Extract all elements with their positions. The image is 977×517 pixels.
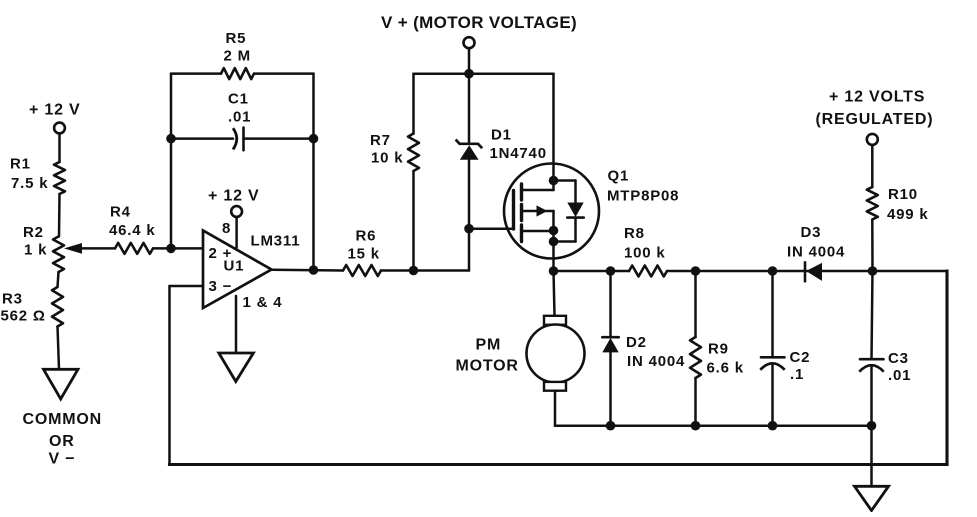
wire feedback top right [254, 72, 314, 75]
svg-text:PM: PM [476, 337, 502, 354]
resistor R9 [690, 337, 701, 378]
junction output/feedback [309, 265, 319, 275]
junction bottom rail / ground stem [867, 421, 877, 431]
Q1 drain stub [522, 189, 554, 192]
wire ground stem [870, 426, 873, 487]
svg-text:C1: C1 [228, 91, 249, 108]
wire gate node down to R6 line [468, 229, 471, 271]
svg-text:15 k: 15 k [348, 246, 380, 263]
svg-text:.01: .01 [228, 109, 251, 126]
junction C2 bottom [768, 421, 778, 431]
transistor Q1 MTP8P08 body circle [504, 164, 599, 259]
svg-text:C3: C3 [888, 350, 909, 367]
junction R9 bottom [691, 421, 701, 431]
wire drain node to motor [554, 271, 555, 316]
wire feedback right vertical [312, 74, 315, 270]
resistor R6 [343, 265, 381, 276]
svg-text:10 k: 10 k [371, 150, 403, 167]
capacitor C2 [761, 356, 785, 359]
junction C1 right [309, 134, 319, 144]
svg-text:1N4740: 1N4740 [490, 145, 547, 162]
junction R6/R7 [409, 266, 419, 276]
junction C2 top [768, 266, 778, 276]
junction R9 top [691, 266, 701, 276]
Q1 gate bar [512, 191, 515, 230]
wire pin 8 [235, 217, 238, 248]
wiper arrow of R2 [64, 243, 82, 254]
wire pin 3 feedback vertical [168, 286, 171, 465]
ground bottom right [855, 486, 889, 510]
wire R10 to node [871, 220, 874, 272]
motor brush bottom [544, 382, 566, 391]
svg-text:D1: D1 [491, 127, 512, 144]
svg-text:R6: R6 [356, 228, 377, 245]
wire right feedback vertical [945, 271, 948, 465]
svg-text:100 k: 100 k [624, 245, 666, 262]
resistor R7 [408, 134, 419, 172]
svg-text:.01: .01 [888, 367, 911, 384]
svg-text:46.4 k: 46.4 k [109, 222, 156, 239]
terminal +12 V (op-amp pin 8) [231, 206, 242, 217]
resistor R3 [52, 287, 63, 327]
svg-text:U1: U1 [224, 258, 245, 275]
svg-text:MOTOR: MOTOR [456, 358, 519, 375]
junction Q1 body/source [549, 226, 559, 236]
terminal +12 V (left supply) [54, 123, 65, 134]
wire drain line mid [667, 270, 947, 273]
svg-text:MTP8P08: MTP8P08 [607, 188, 679, 205]
junction D2 top [606, 266, 616, 276]
wire C1 left lead [171, 137, 233, 140]
svg-text:R4: R4 [110, 204, 131, 221]
junction Q1 drain / body diode [549, 176, 559, 186]
wire D2 top lead [609, 271, 612, 337]
wire R3 to ground [58, 327, 60, 370]
wire bottom feedback line [170, 463, 948, 466]
resistor R10 [867, 187, 878, 220]
junction Q1 drain node [549, 266, 559, 276]
wire terminal to R1 [58, 133, 61, 162]
svg-text:+ 12 VOLTS: + 12 VOLTS [829, 89, 925, 106]
resistor R1 [54, 162, 65, 194]
svg-text:.1: .1 [790, 366, 804, 383]
potentiometer R2 [53, 237, 64, 273]
junction V+ rail [464, 69, 474, 79]
svg-text:COMMON: COMMON [23, 411, 102, 428]
wire motor to bottom rail [554, 391, 557, 426]
motor brush top [544, 316, 566, 325]
zener diode D1 [456, 140, 483, 149]
diode D3 [804, 262, 807, 281]
wire R7 to R6 line [412, 171, 415, 271]
wire pin 1 and 4 to ground [235, 296, 238, 353]
wire D2 bottom lead [609, 352, 612, 425]
junction node pin2/feedback [166, 244, 176, 254]
Q1 body diode [567, 203, 583, 218]
wire top rail [414, 72, 554, 75]
wire R4 to op-amp pin 2 [153, 247, 203, 250]
svg-text:1 & 4: 1 & 4 [243, 294, 283, 311]
ground op-amp [219, 353, 254, 382]
Q1 channel segment body [520, 205, 523, 221]
svg-text:6.6 k: 6.6 k [707, 360, 744, 377]
svg-text:3 −: 3 − [209, 278, 233, 295]
wire D1 to gate node [468, 160, 471, 229]
wire gate node to Q1 gate [469, 227, 514, 230]
svg-text:R3: R3 [2, 291, 23, 308]
junction R10/C3/D3 node [868, 266, 878, 276]
svg-text:D2: D2 [626, 334, 647, 351]
wire C2 top lead [771, 271, 774, 357]
motor PM [527, 325, 585, 383]
Q1 source stub [522, 230, 554, 233]
capacitor C3 [860, 358, 884, 361]
Q1 channel segment source [520, 225, 523, 242]
Q1 channel segment drain [520, 184, 523, 200]
svg-text:8: 8 [222, 220, 231, 237]
svg-text:R8: R8 [624, 225, 645, 242]
wire rail to D1 [468, 74, 471, 143]
wire op-amp output [272, 269, 344, 272]
svg-text:562 Ω: 562 Ω [1, 308, 46, 325]
wire Q1 source vertical [552, 211, 555, 271]
wire C3 bottom lead [870, 366, 873, 426]
svg-text:Q1: Q1 [608, 168, 630, 185]
wire terminal to rail [468, 48, 471, 73]
svg-text:R10: R10 [888, 186, 918, 203]
Q1 body diode branch bottom [574, 218, 577, 242]
svg-text:V −: V − [49, 451, 76, 468]
svg-text:R9: R9 [708, 341, 729, 358]
junction D2 bottom [606, 421, 616, 431]
Q1 body stub with arrow [522, 210, 538, 213]
svg-text:1 k: 1 k [24, 242, 47, 259]
wire feedback top left [171, 72, 221, 75]
svg-text:OR: OR [49, 433, 75, 450]
wire rail to R7 [412, 74, 415, 134]
terminal +12 VOLTS regulated [867, 134, 878, 145]
wire drain line left [554, 270, 630, 273]
ground COMMON [44, 369, 79, 399]
junction gate node [464, 224, 474, 234]
svg-text:IN 4004: IN 4004 [627, 353, 685, 370]
svg-text:+ 12 V: + 12 V [29, 102, 81, 119]
wire R6 to gate corner [381, 269, 469, 272]
resistor R4 [115, 243, 153, 254]
svg-text:2 M: 2 M [224, 48, 251, 65]
wire C1 right lead [244, 137, 314, 140]
svg-text:V + (MOTOR VOLTAGE): V + (MOTOR VOLTAGE) [381, 13, 577, 32]
svg-text:R2: R2 [23, 224, 44, 241]
wire pin 3 horizontal [170, 285, 204, 288]
op-amp U1 LM311 [203, 231, 272, 309]
svg-text:(REGULATED): (REGULATED) [816, 111, 934, 128]
svg-text:7.5 k: 7.5 k [11, 175, 48, 192]
wire R1 to R2 [58, 194, 61, 237]
wire rail to Q1 drain [552, 74, 555, 190]
Q1 body diode branch top [554, 179, 576, 182]
svg-text:R1: R1 [10, 156, 31, 173]
svg-text:D3: D3 [801, 224, 822, 241]
wire R9 top lead [694, 271, 697, 337]
wire C3 top lead [872, 271, 873, 359]
resistor R5 [221, 68, 254, 79]
junction C1 left [166, 134, 176, 144]
wire feedback left vertical [170, 74, 173, 249]
resistor R8 [629, 266, 667, 277]
terminal V+ motor voltage [464, 37, 475, 48]
svg-text:R7: R7 [370, 132, 391, 149]
svg-text:LM311: LM311 [251, 233, 301, 250]
wire R2 to R3 [58, 272, 59, 287]
svg-text:499 k: 499 k [887, 206, 929, 223]
wire R9 bottom lead [694, 378, 697, 426]
svg-text:R5: R5 [226, 30, 247, 47]
capacitor C1 [233, 128, 237, 149]
svg-text:C2: C2 [790, 349, 811, 366]
diode D2 [602, 336, 618, 339]
svg-text:IN 4004: IN 4004 [787, 244, 845, 261]
junction Q1 diode return [549, 237, 559, 247]
wire C2 bottom lead [771, 364, 774, 426]
svg-text:+ 12 V: + 12 V [208, 188, 260, 205]
wire terminal to R10 [871, 145, 874, 187]
